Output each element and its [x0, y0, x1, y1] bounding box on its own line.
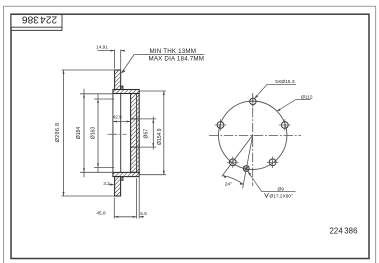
svg-text:14.91: 14.91 [96, 44, 108, 49]
svg-text:6.5: 6.5 [140, 211, 147, 216]
svg-text:Ø67: Ø67 [144, 129, 150, 139]
svg-text:Ø9: Ø9 [278, 186, 285, 192]
svg-text:Ø163: Ø163 [91, 127, 97, 139]
svg-text:224386: 224386 [330, 227, 358, 236]
svg-text:Ø296.8: Ø296.8 [55, 123, 61, 143]
svg-text:42.9: 42.9 [113, 115, 123, 120]
svg-text:45.8: 45.8 [96, 210, 106, 215]
svg-text:3.2: 3.2 [103, 181, 110, 186]
svg-text:24°: 24° [225, 182, 232, 188]
svg-text:MIN THK 13MM: MIN THK 13MM [150, 48, 197, 55]
svg-text:5XØ15.3: 5XØ15.3 [275, 79, 295, 85]
svg-text:MAX DIA 184.7MM: MAX DIA 184.7MM [149, 56, 205, 63]
svg-text:Ø17.2X90°: Ø17.2X90° [270, 193, 294, 199]
svg-text:Ø154.9: Ø154.9 [157, 128, 163, 145]
svg-text:Ø184: Ø184 [76, 127, 82, 139]
svg-text:224386: 224386 [22, 14, 58, 25]
svg-text:Ø112: Ø112 [301, 95, 313, 101]
